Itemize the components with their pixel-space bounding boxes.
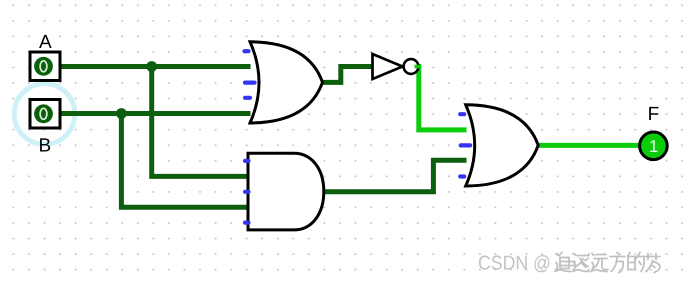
selection halo around pin B xyxy=(14,84,75,145)
wire OR1 output to NOT input xyxy=(321,67,373,83)
OR2 floating input stub 1 xyxy=(460,112,464,116)
wire NOT output to OR2 input 2 (logic 1) xyxy=(414,67,467,130)
output pin F circle xyxy=(640,132,668,160)
wire from junction A down to AND input 2 xyxy=(152,67,249,177)
AND floating input stub 3 xyxy=(245,190,249,194)
and-gate U2 body xyxy=(248,153,324,230)
char fang xyxy=(610,253,625,273)
svg-text:F: F xyxy=(648,104,660,125)
junction on wire A xyxy=(146,61,157,72)
pin A value 0 glyph xyxy=(40,61,47,72)
wire A output to OR1 input 2 xyxy=(61,64,251,69)
char zhui xyxy=(555,253,575,272)
svg-text:A: A xyxy=(39,32,52,53)
pin B value disc xyxy=(34,104,53,123)
char de xyxy=(628,253,644,272)
AND floating input stub 1 xyxy=(245,159,249,163)
junction on wire B xyxy=(116,108,127,119)
watermark CJK 追逐远方的梦 (vector approximation) xyxy=(555,253,660,273)
wire stub poking into NOT bubble xyxy=(415,65,420,69)
or-gate OR1 body xyxy=(250,42,323,123)
char zhu xyxy=(573,254,589,272)
pin A value disc xyxy=(34,57,53,76)
not-gate U3 bubble xyxy=(404,59,419,74)
svg-text:1: 1 xyxy=(649,137,658,156)
wire AND output to OR2 input 4 xyxy=(322,160,467,192)
pin B value 0 glyph xyxy=(40,108,47,119)
wire OR2 output to pin F (logic 1) xyxy=(536,143,641,148)
char yuan xyxy=(591,254,608,272)
AND floating input stub 5 xyxy=(245,221,249,225)
input pin B box xyxy=(30,100,60,129)
input pin A box xyxy=(30,52,60,81)
OR1 floating input stub 4 xyxy=(245,96,250,100)
OR1 floating input stub 1 xyxy=(245,49,249,53)
OR1 floating input stub 3 xyxy=(245,80,255,84)
OR2 floating input stub 3 xyxy=(461,143,471,147)
svg-text:B: B xyxy=(39,135,52,156)
not-gate U3 triangle xyxy=(373,54,403,79)
char meng xyxy=(645,254,660,273)
or-gate OR2 body xyxy=(466,105,539,186)
wire B output to OR1 input 5 xyxy=(61,111,251,116)
wire from junction B down to AND input 4 xyxy=(121,114,249,208)
svg-text:CSDN @: CSDN @ xyxy=(478,252,551,274)
OR2 floating input stub 5 xyxy=(460,174,464,178)
